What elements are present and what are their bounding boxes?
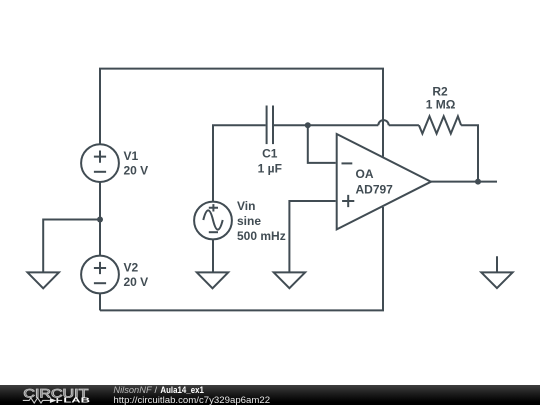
wire hop to resistor R2 left lead — [389, 124, 419, 126]
svg-text:20 V: 20 V — [124, 275, 149, 289]
wire output node up to R2 right lead — [461, 125, 478, 181]
wire V+ supply rail: V1 top, top rail, down to op-amp V+ pin — [100, 69, 383, 157]
svg-text:1 MΩ: 1 MΩ — [426, 98, 456, 112]
svg-text:LAB: LAB — [63, 397, 90, 404]
capacitor C1 left plate — [266, 106, 268, 145]
svg-text:R2: R2 — [432, 85, 448, 99]
svg-text:V1: V1 — [124, 149, 139, 163]
wire non-inverting input to ground — [289, 201, 335, 273]
footer bar — [0, 385, 540, 405]
svg-text:OA: OA — [356, 167, 374, 181]
voltage source V1 — [81, 144, 119, 182]
svg-text:/: / — [155, 385, 158, 395]
junction between V1 and V2 — [97, 217, 103, 223]
V1 plus terminal marker — [94, 151, 106, 163]
wire C1 left plate to Vin plus terminal — [213, 125, 266, 201]
V1 body circle — [81, 144, 119, 182]
Vin sine waveform glyph — [203, 210, 222, 229]
capacitor C1 right plate — [272, 106, 274, 145]
wire C1 right plate to feedback node — [274, 124, 378, 126]
svg-text:C1: C1 — [262, 147, 278, 161]
wire op-amp output — [431, 181, 497, 183]
svg-text:20 V: 20 V — [124, 164, 149, 178]
V1 minus terminal marker — [94, 171, 106, 173]
ground GND at Vin — [197, 272, 228, 288]
svg-text:500 mHz: 500 mHz — [237, 229, 286, 243]
Vin body circle — [194, 202, 232, 240]
resistor R2 — [419, 116, 461, 133]
junction at C1 right / inverting input node — [305, 122, 311, 128]
V2 minus terminal marker — [94, 282, 106, 284]
wire Vin minus to ground — [212, 239, 214, 272]
wire V1 minus to V2 plus — [99, 182, 101, 256]
sine source Vin — [194, 202, 232, 240]
op-amp inverting input pin marker — [342, 162, 353, 164]
wire V2 minus to bottom rail — [99, 294, 101, 311]
V2 body circle — [81, 256, 119, 294]
Vin plus terminal marker — [209, 204, 218, 211]
svg-text:Vin: Vin — [237, 199, 255, 213]
ground GND at non-inverting input — [274, 272, 305, 288]
V2 plus terminal marker — [94, 262, 106, 274]
op-amp non-inverting input pin marker — [342, 195, 354, 207]
wire V- supply rail: bottom rail up to op-amp V- pin — [100, 207, 383, 310]
svg-text:NilsonNF: NilsonNF — [113, 385, 153, 395]
voltage source V2 — [81, 256, 119, 294]
svg-text:sine: sine — [237, 214, 261, 228]
svg-text:Aula14_ex1: Aula14_ex1 — [160, 385, 204, 395]
Vin minus terminal marker — [209, 231, 218, 233]
svg-text:AD797: AD797 — [356, 183, 394, 197]
wire junction node to left ground — [43, 220, 100, 273]
svg-text:V2: V2 — [124, 261, 139, 275]
wire hop over supply wire — [378, 120, 388, 125]
op-amp OA AD797 — [337, 134, 431, 229]
ground GND floating at right — [481, 256, 512, 288]
CircuitLab logo and credits — [0, 385, 540, 405]
svg-text:1 µF: 1 µF — [258, 162, 282, 176]
svg-text:http://circuitlab.com/c7y329ap: http://circuitlab.com/c7y329ap6am22 — [113, 394, 270, 404]
junction at op-amp output node — [475, 179, 481, 185]
wire inverting input: junction down and into op-amp — [308, 125, 336, 163]
op-amp U1 triangle body — [337, 134, 431, 229]
ground GND left — [28, 272, 59, 288]
